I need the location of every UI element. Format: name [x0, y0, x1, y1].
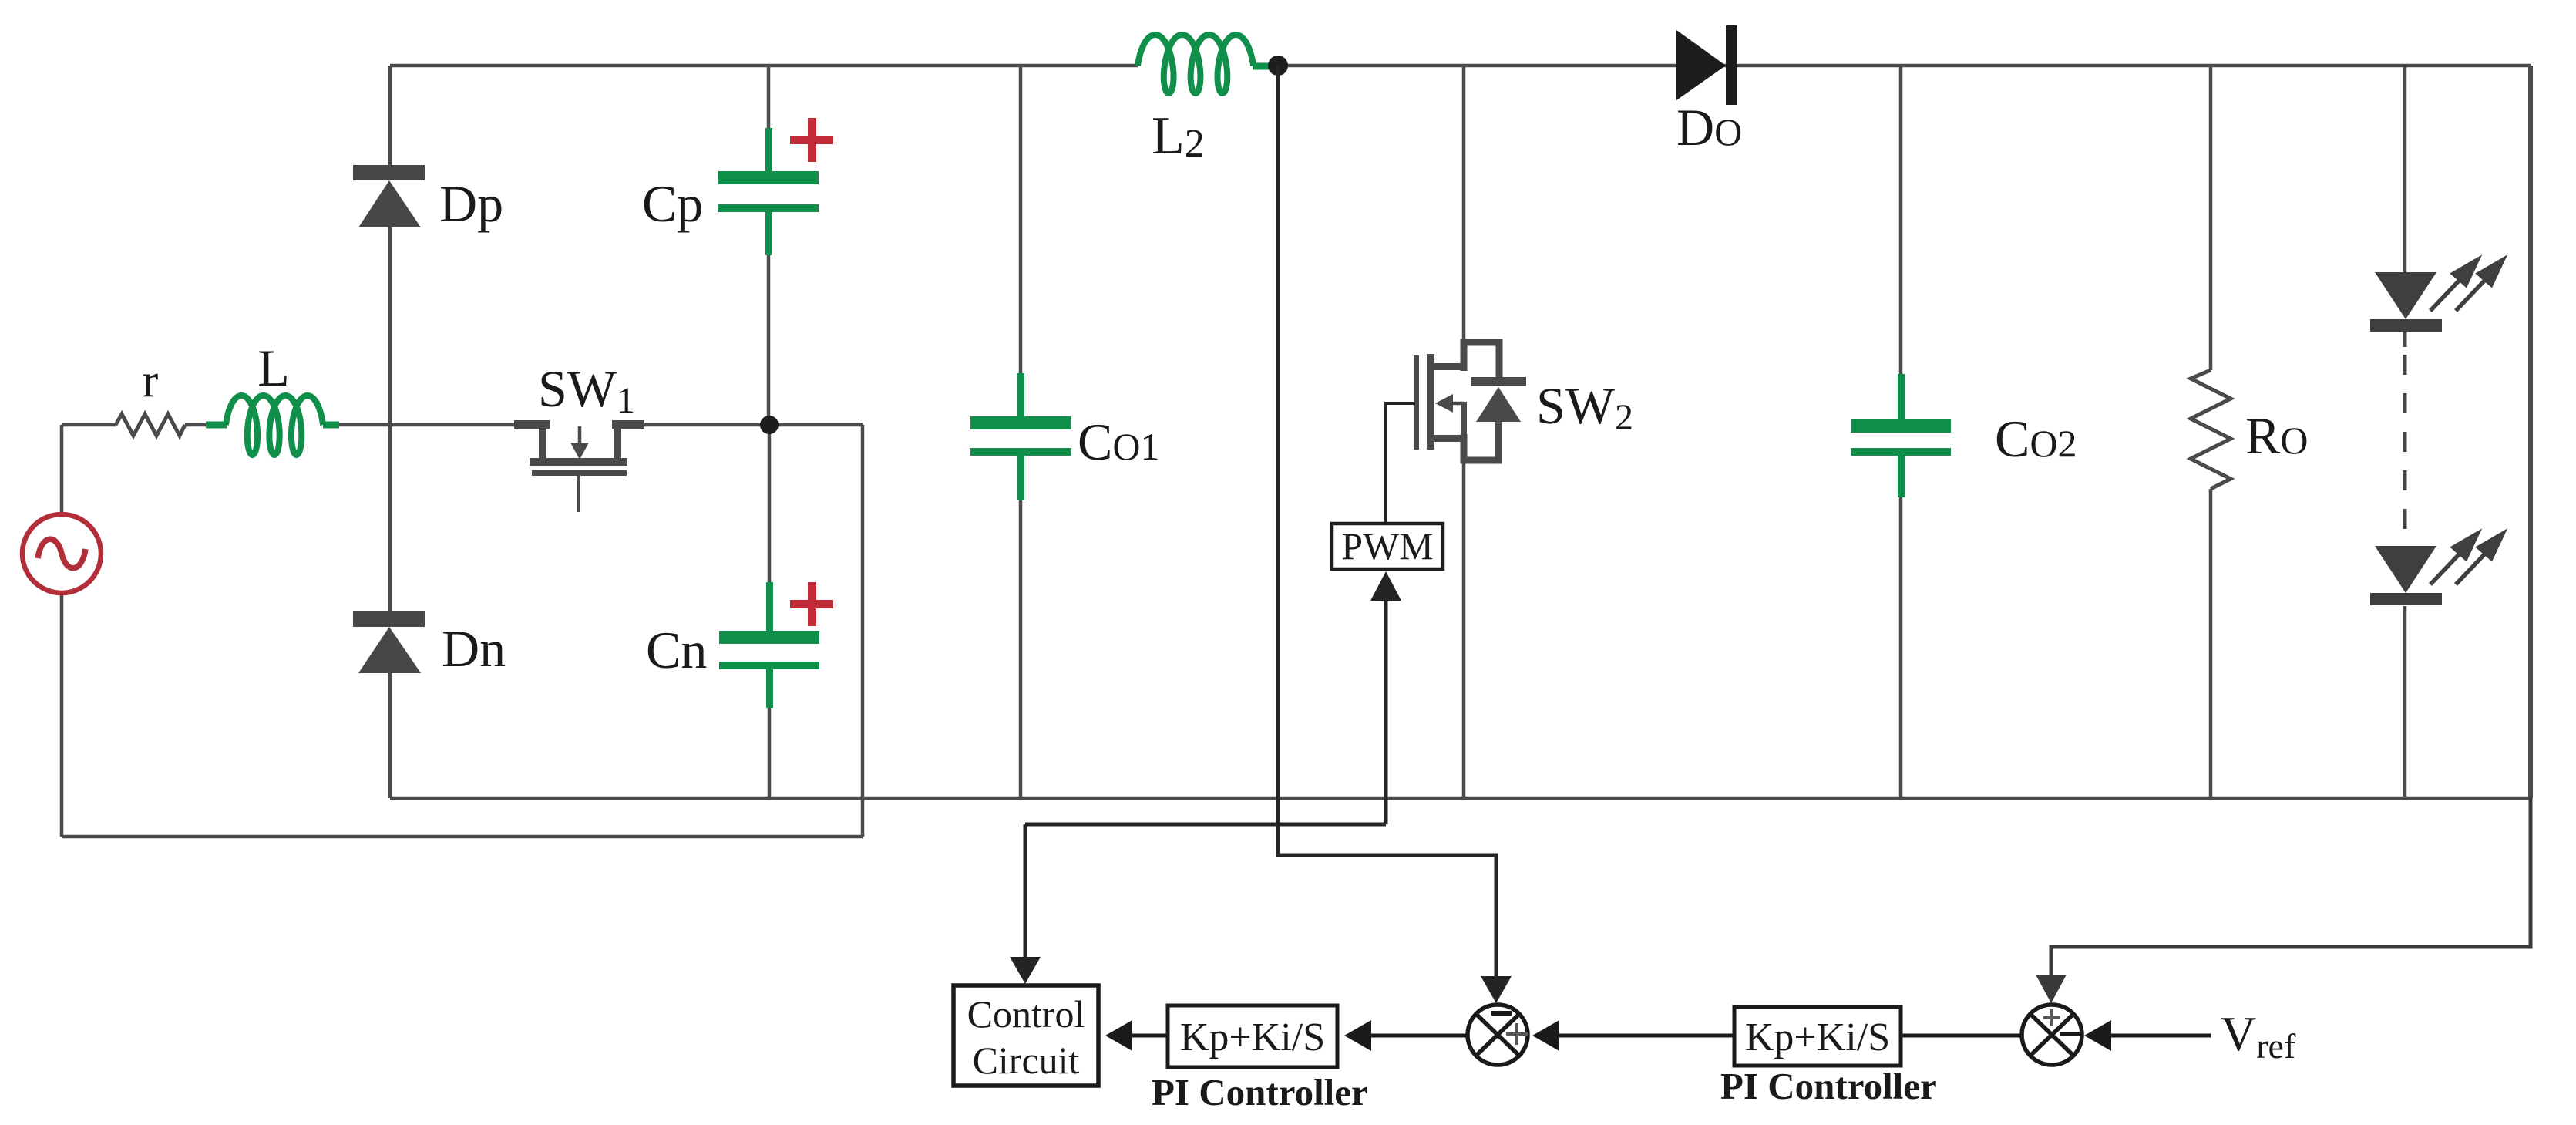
wire Cp column — [767, 66, 771, 425]
S1 plus sign — [1506, 1023, 1528, 1045]
LED D1 — [2370, 272, 2442, 332]
wire Co2 column — [1899, 66, 1903, 798]
wire LED column top — [2403, 66, 2407, 272]
arrow into PWM — [1370, 571, 1401, 601]
wire L to SW1 — [338, 423, 518, 427]
wire node-A sense line down to summing junction 1 — [1278, 66, 1496, 979]
diode Do — [1676, 25, 1737, 105]
svg-text:L: L — [257, 339, 290, 397]
svg-text:PI Controller: PI Controller — [1720, 1065, 1937, 1107]
svg-text:CO1: CO1 — [1078, 413, 1159, 471]
svg-text:Control: Control — [967, 992, 1085, 1036]
svg-text:L2: L2 — [1152, 106, 1205, 166]
capacitor Cn — [719, 582, 819, 708]
svg-text:Circuit: Circuit — [973, 1039, 1080, 1082]
capacitor Co2 — [1851, 374, 1951, 497]
wire LED column bottom — [2403, 606, 2407, 798]
inductor L2 — [1138, 35, 1273, 93]
svg-text:Cp: Cp — [642, 174, 703, 233]
wire input left — [62, 423, 206, 427]
feedback line from output — [2051, 798, 2531, 976]
arrow into Control Circuit — [1010, 957, 1041, 984]
svg-text:CO2: CO2 — [1995, 409, 2077, 468]
capacitor Cp — [718, 128, 819, 255]
svg-text:DO: DO — [1676, 98, 1742, 157]
wire S1 to PI box 1 with arrow — [1370, 1034, 1468, 1038]
LED D2 — [2370, 546, 2442, 605]
transistor SW2 drain/source elbows — [1464, 342, 1499, 378]
wire LED dashed link — [2403, 355, 2407, 541]
wire Co1 column — [1019, 66, 1023, 798]
diode Dp — [353, 165, 425, 227]
S2 minus sign — [2060, 1032, 2080, 1036]
wire PWM / Control Circuit feed — [1025, 600, 1386, 959]
svg-text:PWM: PWM — [1341, 524, 1433, 568]
transistor SW1 arrow — [578, 426, 582, 444]
svg-text:Kp+Ki/S: Kp+Ki/S — [1180, 1016, 1325, 1059]
node A junction dot — [760, 416, 779, 434]
svg-text:PI Controller: PI Controller — [1152, 1071, 1368, 1113]
wire SW1 return box vertical — [861, 425, 865, 837]
polarity plus of Cp — [790, 118, 833, 162]
wire Cn column — [768, 425, 772, 798]
wire Dp-Dn column — [388, 66, 392, 798]
wire SW2 column — [1462, 66, 1466, 798]
wire AC source leads — [60, 425, 64, 837]
wire SW2 gate to PWM — [1386, 403, 1415, 524]
polarity plus of Cn — [790, 582, 833, 626]
PWM box — [1332, 524, 1443, 569]
resistor r — [116, 414, 185, 436]
Vref input arrow — [2110, 1034, 2211, 1038]
svg-text:Kp+Ki/S: Kp+Ki/S — [1745, 1016, 1890, 1059]
svg-text:SW2: SW2 — [1536, 376, 1633, 438]
svg-text:Cn: Cn — [646, 621, 707, 679]
wire Ro column — [2209, 66, 2213, 798]
transistor SW2 body arrow — [1451, 402, 1464, 406]
svg-text:Vref: Vref — [2221, 1006, 2296, 1066]
svg-text:SW1: SW1 — [538, 359, 635, 421]
capacitor Co1 — [970, 373, 1071, 500]
inductor L — [206, 396, 339, 455]
summing junction S1 — [1468, 1005, 1528, 1065]
S2 plus sign — [2043, 1009, 2060, 1026]
wire PI box 2 to S1 with arrow — [1559, 1034, 1734, 1038]
PI controller box 2 — [1734, 1007, 1901, 1066]
node after L2 junction dot — [1268, 56, 1288, 76]
wire top rail left — [390, 64, 1138, 68]
AC source V — [22, 514, 101, 593]
diode body of SW2 — [1471, 377, 1526, 422]
wire SW1 to node to right box — [642, 423, 863, 427]
wire right edge — [2528, 66, 2533, 798]
svg-text:Dn: Dn — [442, 619, 506, 678]
summing junction S2 — [2022, 1005, 2082, 1065]
PI controller box 1 — [1168, 1005, 1337, 1067]
LED D1 light arrows — [2430, 260, 2503, 311]
Control Circuit box — [953, 985, 1098, 1086]
svg-text:RO: RO — [2245, 406, 2308, 465]
LED D2 light arrows — [2430, 534, 2503, 584]
transistor SW1 gate stub — [577, 475, 580, 512]
wire bottom rail — [390, 797, 2531, 800]
svg-text:r: r — [143, 355, 159, 407]
wire PI box 1 to Control Circuit with arrow — [1132, 1034, 1168, 1038]
resistor Ro — [2191, 370, 2231, 489]
wire S2 to PI box 2 — [1901, 1034, 2022, 1038]
wire LED column stub below LED1 — [2403, 332, 2407, 347]
transistor SW1 — [514, 420, 644, 476]
wire top rail right — [1269, 64, 2531, 68]
diode Dn — [353, 611, 425, 673]
svg-text:Dp: Dp — [439, 174, 503, 233]
wire outer bottom — [62, 835, 863, 839]
transistor SW2 — [1414, 354, 1467, 450]
S1 minus sign — [1491, 1011, 1512, 1016]
